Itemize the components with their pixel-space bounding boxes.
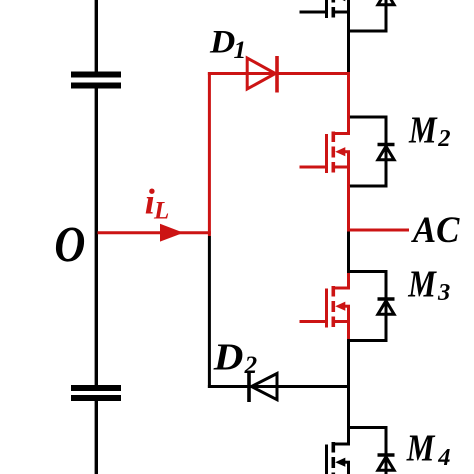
source stub wire on rail	[347, 0, 350, 31]
current label i_L	[145, 181, 169, 224]
body diode of M1	[347, 0, 395, 31]
body arrow	[335, 0, 345, 1]
drain lead wire	[347, 117, 350, 134]
drain lead wire	[347, 272, 350, 289]
left DC-bus rail wire (middle segment)	[95, 89, 98, 386]
label D2	[213, 336, 257, 379]
gate lead wire	[300, 320, 329, 323]
svg-text:2: 2	[244, 352, 258, 379]
body arrow	[335, 458, 345, 467]
MOSFET M1 (top, partially clipped)	[300, 0, 351, 31]
label M4	[406, 426, 451, 471]
gate bar	[325, 0, 328, 18]
svg-text:3: 3	[437, 279, 450, 306]
body arrow	[335, 147, 345, 156]
source lead wire	[332, 166, 350, 169]
svg-text:D: D	[209, 25, 235, 61]
diode D1 (red, clamp to upper rail)	[208, 56, 349, 93]
svg-text:O: O	[54, 217, 85, 273]
left DC-bus rail wire (top segment)	[95, 0, 98, 72]
source lead wire	[332, 11, 350, 14]
gate lead wire	[300, 166, 329, 169]
svg-text:4: 4	[437, 444, 450, 471]
gate bar	[325, 445, 328, 474]
svg-text:M: M	[406, 426, 436, 469]
capacitor C2	[71, 388, 121, 398]
wire rail M3 source to D2 junction and M4 drain (black)	[347, 341, 350, 428]
body arrow	[335, 302, 345, 311]
wire rail M2 source to AC node (red)	[347, 186, 350, 232]
MOSFET M4 (bottom, partially clipped)	[300, 428, 351, 474]
wire rail D1 junction to M2 drain (red)	[347, 72, 350, 117]
gate bar	[325, 134, 328, 173]
wire rail AC node to M3 drain (black)	[347, 232, 350, 272]
svg-text:M: M	[407, 263, 437, 306]
body diode of M4	[347, 428, 395, 474]
wire middle branch vertical (red, up to diode D1)	[208, 72, 211, 236]
label D1	[209, 25, 246, 64]
label M2	[408, 109, 450, 152]
body diode of M3	[347, 272, 395, 341]
drain lead wire	[347, 428, 350, 445]
wire middle branch vertical (black, down to diode D2)	[208, 236, 211, 388]
svg-text:1: 1	[234, 35, 247, 64]
svg-text:M: M	[408, 109, 438, 152]
label AC	[411, 209, 460, 250]
svg-text:L: L	[153, 198, 169, 225]
channel bars (drain/body/source)	[331, 286, 335, 297]
MOSFET M3 (red / conducting)	[300, 272, 351, 341]
wire AC output (red)	[349, 229, 410, 232]
source stub wire on rail	[347, 306, 350, 340]
channel bars (drain/body/source)	[331, 442, 335, 453]
gate lead wire	[300, 11, 329, 14]
svg-text:D: D	[213, 336, 244, 378]
source lead wire	[332, 320, 350, 323]
left DC-bus rail wire (bottom segment)	[95, 401, 98, 474]
capacitor C1	[71, 75, 121, 86]
diode D2 (black, clamp to lower rail)	[208, 372, 349, 402]
label M3	[407, 263, 450, 306]
MOSFET M2 (red / conducting)	[300, 117, 351, 186]
wire rail M1 source to D1 junction (black)	[347, 31, 350, 74]
body diode of M2	[350, 117, 395, 186]
gate bar	[325, 289, 328, 328]
node O label	[54, 217, 85, 273]
channel bars (drain/body/source)	[331, 132, 335, 143]
source stub wire on rail	[347, 462, 350, 474]
source stub wire on rail	[347, 152, 350, 186]
svg-text:2: 2	[437, 125, 450, 152]
svg-text:AC: AC	[411, 209, 460, 250]
wire i_L from node O with current arrow	[98, 224, 211, 242]
